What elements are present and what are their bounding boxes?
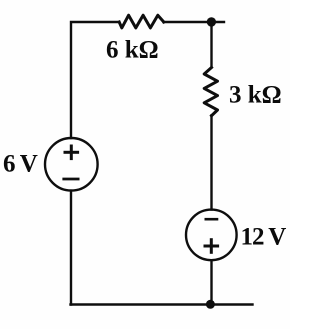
svg-text:3 kΩ: 3 kΩ	[229, 82, 282, 109]
plus sign inside V1 (top)	[65, 151, 78, 154]
resistor R2 3 kOhm (vertical zigzag)	[204, 68, 217, 116]
svg-text:6 kΩ: 6 kΩ	[106, 37, 159, 64]
resistor R1 6 kOhm (horizontal zigzag)	[119, 15, 164, 28]
wire top-left horizontal segment	[71, 22, 119, 138]
svg-text:6 V: 6 V	[3, 151, 38, 178]
wire V1 to bottom-left corner	[70, 191, 72, 305]
bottom wire	[71, 303, 253, 305]
wire top node down to R2	[210, 22, 212, 67]
wire from R1 to top node	[164, 21, 225, 23]
minus sign inside V1 (bottom)	[64, 178, 78, 181]
minus sign inside V2 (top)	[206, 218, 217, 221]
voltage source V2 12 V (circle)	[186, 210, 237, 261]
plus sign inside V2 (bottom)	[205, 245, 218, 248]
wire V2 to bottom node	[210, 260, 212, 304]
voltage source V1 6 V (circle)	[45, 138, 98, 191]
svg-text:12 V: 12 V	[241, 224, 287, 251]
node B (bottom junction dot)	[206, 300, 215, 309]
node A (top junction dot)	[207, 17, 216, 26]
wire R2 to 12V source	[210, 116, 212, 210]
